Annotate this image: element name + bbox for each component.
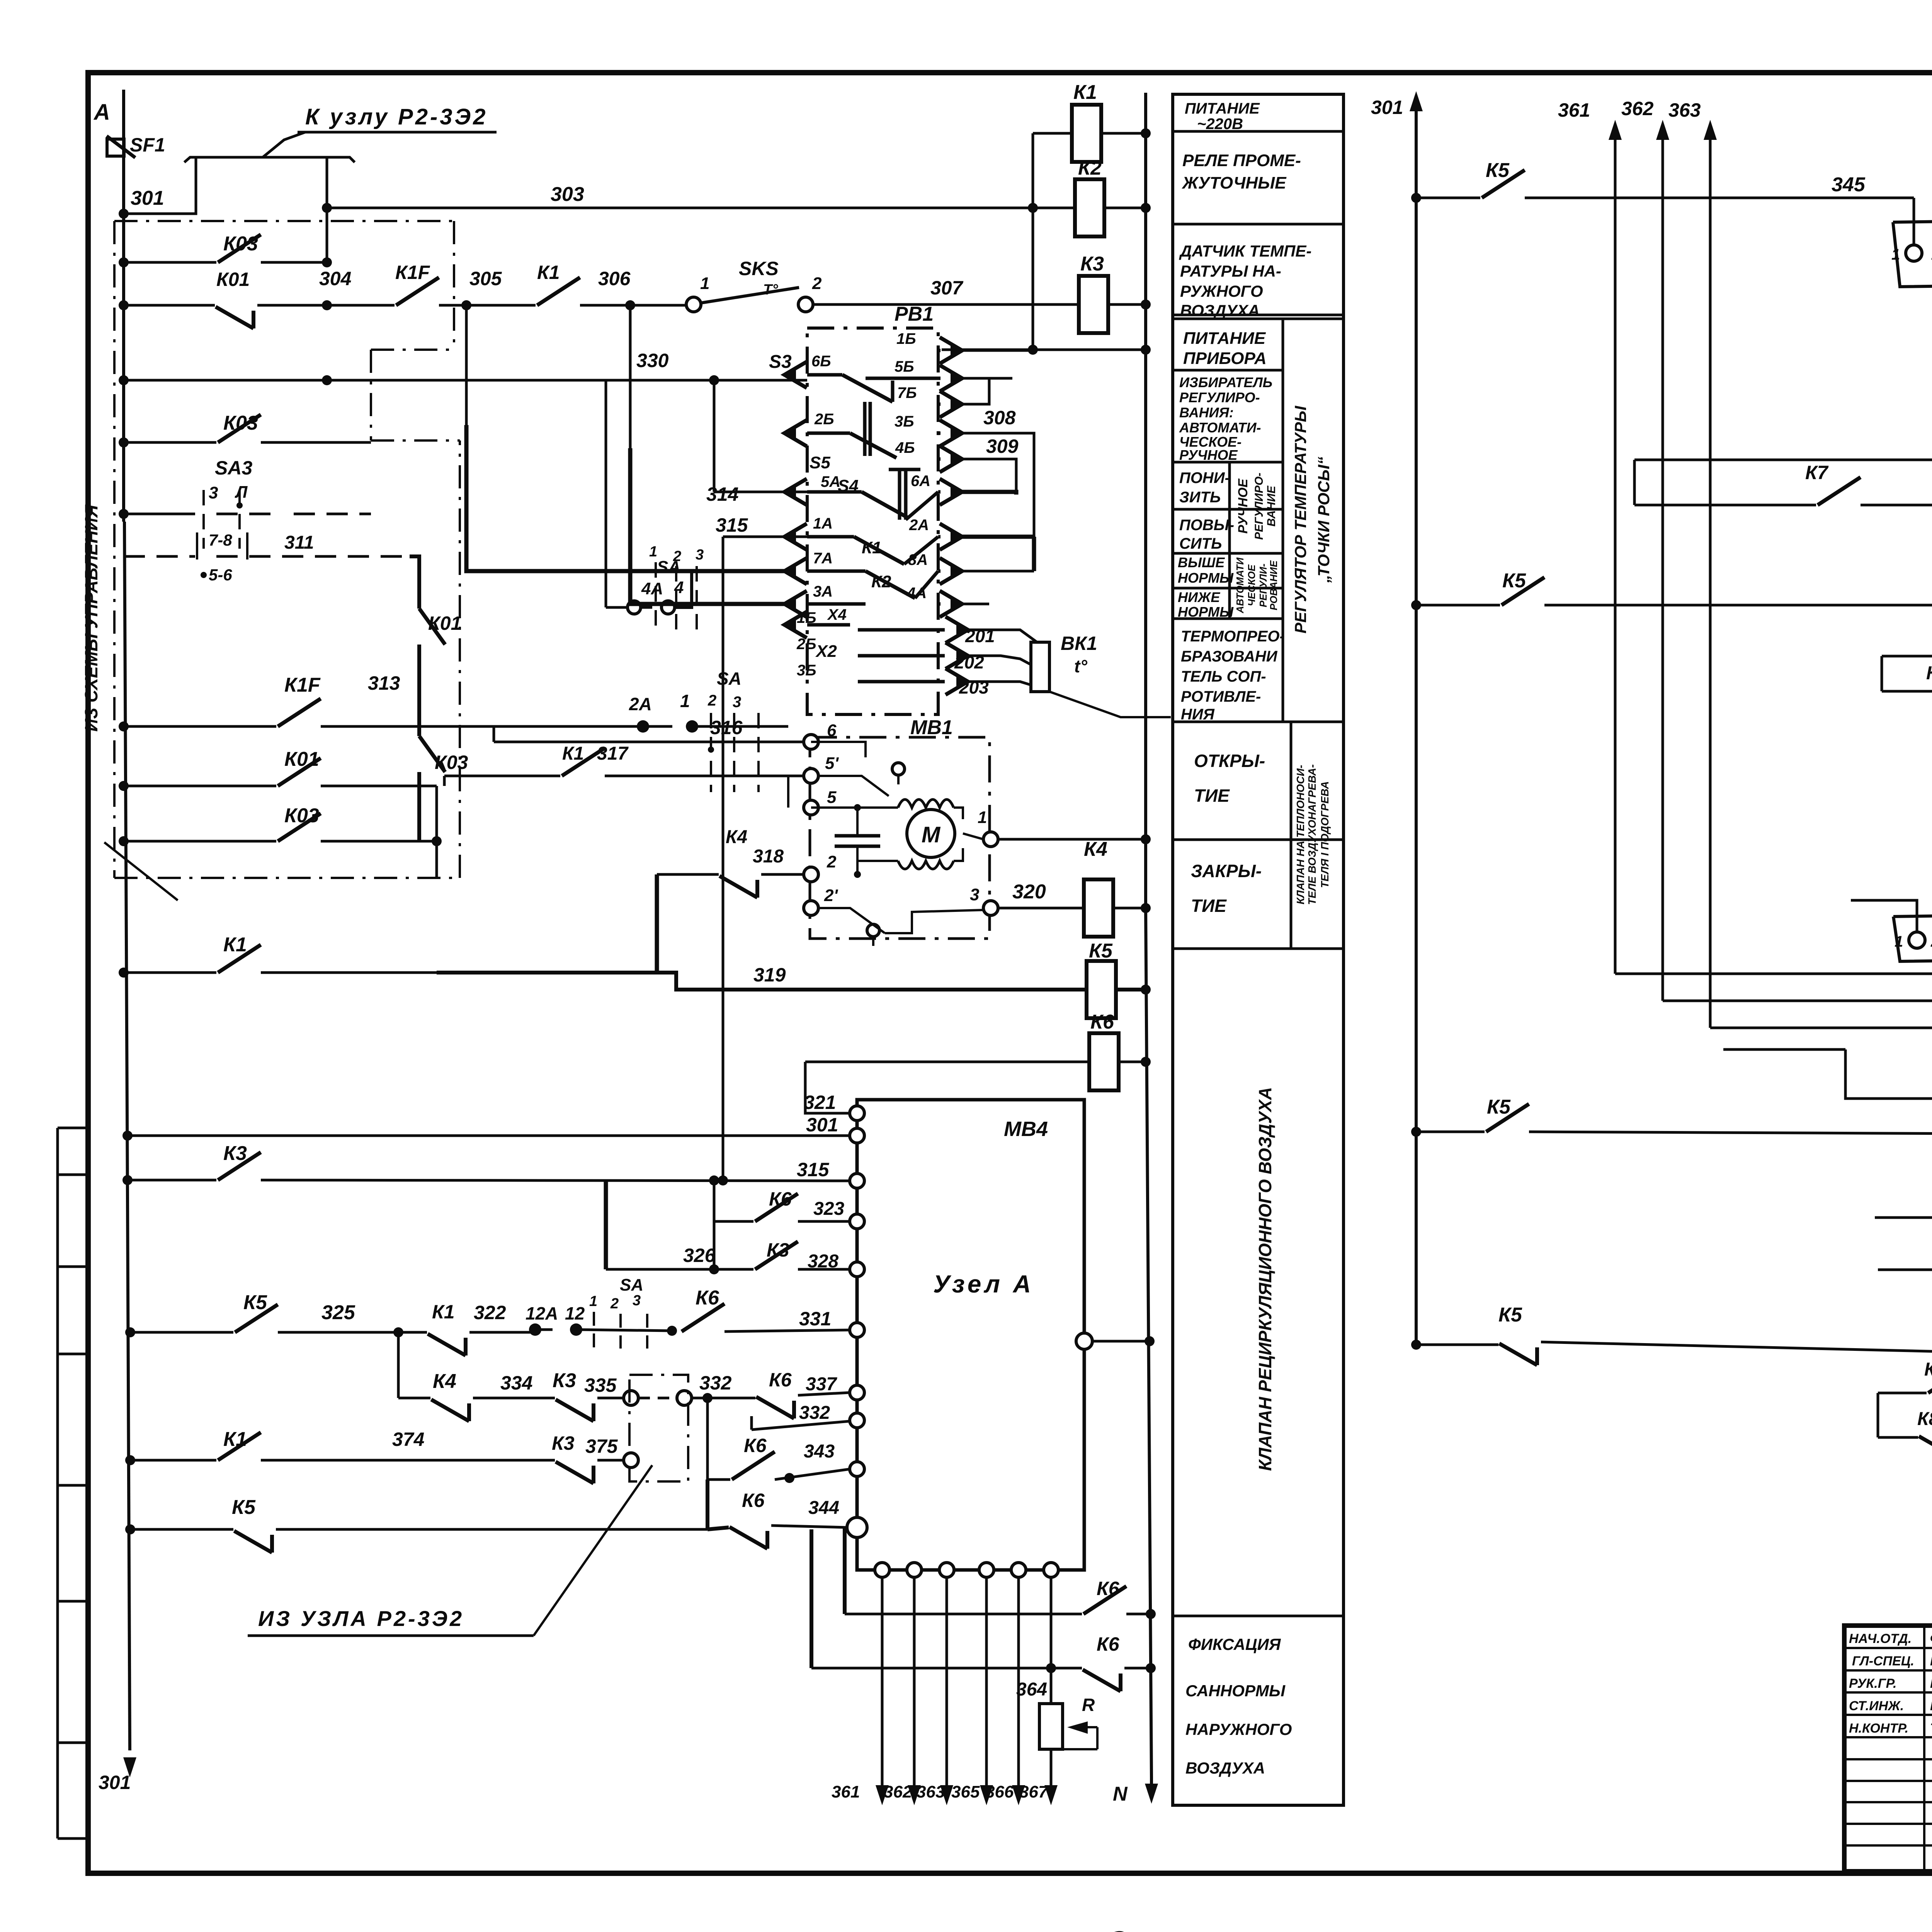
svg-text:306: 306 bbox=[598, 268, 631, 289]
wire 316 bbox=[494, 741, 811, 743]
MB4 bottom terminal x2553 bbox=[979, 1563, 994, 1577]
wire 330 rung bbox=[124, 379, 807, 382]
svg-text:311: 311 bbox=[284, 532, 314, 553]
vertical 325-334 link bbox=[397, 1332, 400, 1398]
PB1 right pin 5Б bbox=[940, 365, 962, 391]
svg-text:ТЕЛЕ ВОЗДУХОНАГРЕВА-: ТЕЛЕ ВОЗДУХОНАГРЕВА- bbox=[1306, 764, 1318, 905]
svg-text:305: 305 bbox=[469, 268, 502, 289]
svg-text:К1: К1 bbox=[537, 262, 560, 283]
MB4 bottom terminal x2720 bbox=[1044, 1563, 1058, 1577]
svg-text:335: 335 bbox=[584, 1374, 617, 1396]
PB1 right pin 4Б bbox=[940, 446, 962, 472]
svg-text:БРАЗОВАНИ: БРАЗОВАНИ bbox=[1181, 648, 1278, 665]
PB1 left pin 3А bbox=[784, 591, 807, 617]
svg-text:К8: К8 bbox=[1924, 1359, 1932, 1380]
svg-text:РЕГУЛЯТОР ТЕМПЕРАТУРЫ: РЕГУЛЯТОР ТЕМПЕРАТУРЫ bbox=[1291, 405, 1310, 633]
svg-text:РОТИВЛЕ-: РОТИВЛЕ- bbox=[1181, 688, 1261, 705]
wire 303 bbox=[327, 157, 1146, 208]
MB4 bottom terminal x2636 bbox=[1011, 1563, 1026, 1577]
svg-text:АВТОМАТИ-: АВТОМАТИ- bbox=[1179, 420, 1261, 435]
svg-text:К4: К4 bbox=[433, 1370, 456, 1393]
PB1 right pin 4А bbox=[940, 591, 962, 617]
PB1 X2 pin 2Б bbox=[946, 643, 968, 669]
svg-text:Х4: Х4 bbox=[827, 606, 847, 623]
svg-text:2: 2 bbox=[1930, 933, 1932, 950]
svg-text:РВ1: РВ1 bbox=[895, 303, 934, 325]
svg-text:ОТКРЫ-: ОТКРЫ- bbox=[1194, 751, 1265, 771]
MB4 left terminal y2939 bbox=[850, 1128, 864, 1143]
svg-text:303: 303 bbox=[551, 183, 584, 206]
wire 309 bbox=[958, 459, 1016, 495]
svg-text:ВАНИЯ:: ВАНИЯ: bbox=[1179, 405, 1234, 420]
svg-text:НИЖЕ: НИЖЕ bbox=[1178, 589, 1220, 605]
svg-text:Узел А: Узел А bbox=[933, 1270, 1034, 1298]
svg-text:1: 1 bbox=[700, 274, 709, 293]
svg-text:332: 332 bbox=[699, 1372, 732, 1394]
svg-text:325: 325 bbox=[321, 1301, 355, 1324]
svg-text:К1: К1 bbox=[562, 743, 584, 764]
svg-text:364: 364 bbox=[1016, 1679, 1047, 1700]
svg-text:2': 2' bbox=[824, 886, 838, 905]
svg-text:ИЗ УЗЛА Р2-3Э2: ИЗ УЗЛА Р2-3Э2 bbox=[258, 1606, 464, 1631]
svg-text:SKS: SKS bbox=[739, 258, 779, 279]
svg-text:НОРМЫ: НОРМЫ bbox=[1178, 570, 1234, 586]
contact K01 on vertical 313 bbox=[417, 564, 421, 609]
svg-text:3: 3 bbox=[209, 483, 218, 502]
MB4 left terminal y3604 bbox=[850, 1385, 864, 1400]
wire 348 row with K7 contact bbox=[1633, 460, 1636, 505]
svg-text:314: 314 bbox=[706, 483, 738, 505]
MB1 terminal 5 bbox=[804, 800, 818, 815]
svg-text:К01: К01 bbox=[284, 748, 319, 770]
svg-text:323: 323 bbox=[813, 1199, 844, 1219]
svg-text:ВОЗДУХА: ВОЗДУХА bbox=[1180, 301, 1260, 320]
svg-text:ВОЗДУХА: ВОЗДУХА bbox=[1185, 1759, 1265, 1777]
svg-text:К6: К6 bbox=[744, 1435, 767, 1456]
svg-text:ТИЕ: ТИЕ bbox=[1194, 786, 1230, 806]
svg-text:К5: К5 bbox=[1487, 1096, 1511, 1118]
relay coil K1 bbox=[1033, 132, 1146, 135]
PB1 right pin 3Б bbox=[940, 420, 962, 446]
wire 301 right bus with up arrow bbox=[1415, 111, 1418, 1345]
wire 320 bbox=[998, 907, 1146, 910]
svg-text:374: 374 bbox=[392, 1429, 424, 1450]
svg-text:СИТЬ: СИТЬ bbox=[1179, 535, 1222, 552]
svg-text:S3: S3 bbox=[769, 352, 792, 372]
svg-text:343: 343 bbox=[804, 1441, 835, 1462]
svg-text:344: 344 bbox=[808, 1498, 839, 1518]
svg-text:1: 1 bbox=[1891, 246, 1900, 263]
rung K8 371 bbox=[1878, 1392, 1927, 1395]
selector SA section dots 2A 1 bbox=[637, 720, 649, 733]
svg-text:ТЕЛЬ СОП-: ТЕЛЬ СОП- bbox=[1181, 668, 1266, 685]
svg-text:ИЗ СХЕМЫ УПРАВЛЕНИЯ: ИЗ СХЕМЫ УПРАВЛЕНИЯ bbox=[81, 504, 101, 732]
svg-text:МВ1: МВ1 bbox=[910, 716, 953, 739]
svg-text:1: 1 bbox=[1895, 933, 1903, 950]
svg-text:К1: К1 bbox=[432, 1301, 455, 1323]
svg-text:3: 3 bbox=[970, 885, 979, 904]
MB4 bottom terminal x2450 bbox=[939, 1563, 954, 1577]
svg-text:РЕГУЛИ-: РЕГУЛИ- bbox=[1257, 563, 1269, 607]
svg-text:НИКИФОРОВА: НИКИФОРОВА bbox=[1930, 1699, 1932, 1713]
svg-text:301: 301 bbox=[131, 187, 164, 209]
svg-text:ЗИТЬ: ЗИТЬ bbox=[1179, 489, 1221, 506]
relay coil K4 bbox=[1084, 879, 1113, 937]
svg-text:К01: К01 bbox=[428, 612, 461, 634]
svg-text:2: 2 bbox=[673, 548, 681, 565]
rung K03 (1) bbox=[124, 261, 216, 264]
svg-text:К5: К5 bbox=[1089, 940, 1113, 962]
svg-text:К6: К6 bbox=[742, 1490, 765, 1511]
MB1 terminal 6 bbox=[804, 735, 818, 749]
svg-text:РЕЛЕ ПРОМЕ-: РЕЛЕ ПРОМЕ- bbox=[1182, 151, 1301, 170]
svg-text:366: 366 bbox=[985, 1782, 1014, 1801]
svg-text:К6: К6 bbox=[1097, 1578, 1120, 1599]
wire K1 branch vertical bbox=[1032, 133, 1034, 350]
dash-dot boundary from control circuit bbox=[113, 221, 116, 878]
svg-text:РУЧНОЕ: РУЧНОЕ bbox=[1179, 447, 1238, 463]
svg-text:365: 365 bbox=[951, 1782, 980, 1801]
svg-text:К узлу Р2-3Э2: К узлу Р2-3Э2 bbox=[305, 104, 488, 129]
PB1 left pin Х4 bbox=[784, 612, 807, 638]
wire motor 1 to N bbox=[998, 838, 1146, 841]
svg-text:326: 326 bbox=[683, 1245, 716, 1266]
MB1 right terminal 3 bbox=[983, 901, 998, 915]
wire 314 bbox=[605, 380, 607, 607]
svg-text:К5: К5 bbox=[243, 1291, 267, 1314]
rung K4 334 K3 335 bbox=[398, 1397, 430, 1400]
wire 311 bbox=[410, 556, 419, 564]
svg-text:334: 334 bbox=[500, 1372, 532, 1394]
svg-text:307: 307 bbox=[930, 277, 964, 299]
svg-text:6Б: 6Б bbox=[811, 353, 831, 370]
svg-text:~220В: ~220В bbox=[1197, 116, 1243, 133]
svg-text:К5: К5 bbox=[1502, 570, 1526, 592]
svg-text:3А: 3А bbox=[813, 583, 833, 600]
svg-text:РОВАНИЕ: РОВАНИЕ bbox=[1268, 560, 1279, 611]
svg-text:РУЖНОГО: РУЖНОГО bbox=[1180, 282, 1263, 300]
resistance thermometer BK1 bbox=[965, 630, 1040, 645]
svg-text:361: 361 bbox=[832, 1782, 860, 1801]
svg-text:5': 5' bbox=[825, 754, 839, 773]
wire 353 bbox=[1845, 1049, 1932, 1099]
wire 321 bbox=[805, 1062, 850, 1113]
motor winding bottom bbox=[857, 860, 898, 862]
rung K3 315 bbox=[128, 1179, 216, 1182]
PB1 left pin 2Б bbox=[784, 420, 807, 446]
svg-text:КЛАПАН НА ТЕПЛОНОСИ-: КЛАПАН НА ТЕПЛОНОСИ- bbox=[1294, 765, 1306, 904]
svg-text:К3: К3 bbox=[767, 1239, 789, 1261]
svg-text:SА3: SА3 bbox=[215, 457, 252, 479]
svg-text:ВК1: ВК1 bbox=[1061, 633, 1097, 654]
svg-text:ПОНИ-: ПОНИ- bbox=[1179, 469, 1230, 486]
svg-text:К1: К1 bbox=[1073, 81, 1097, 104]
svg-text:ПРИБОРА: ПРИБОРА bbox=[1183, 349, 1267, 368]
PB1 left pin 5А bbox=[784, 479, 807, 505]
MB1 terminal 2 bbox=[804, 867, 818, 882]
svg-text:328: 328 bbox=[808, 1251, 838, 1272]
N bus left half bbox=[1144, 93, 1147, 908]
PB1 right pin 2А bbox=[940, 524, 962, 550]
wire 8A stub bbox=[958, 570, 1034, 573]
svg-text:ВЫШЕ: ВЫШЕ bbox=[1178, 554, 1225, 570]
svg-text:К1F: К1F bbox=[284, 674, 321, 696]
svg-text:2Б: 2Б bbox=[796, 636, 816, 653]
svg-text:К1F: К1F bbox=[395, 262, 430, 283]
svg-text:309: 309 bbox=[986, 435, 1019, 457]
MB4 bottom terminal x2366 bbox=[907, 1563, 922, 1577]
svg-text:308: 308 bbox=[983, 407, 1016, 429]
svg-text:НАРУЖНОГО: НАРУЖНОГО bbox=[1185, 1720, 1292, 1738]
MB4 left terminal y3802 bbox=[850, 1462, 864, 1476]
svg-text:315: 315 bbox=[797, 1159, 830, 1180]
MB4 left terminal y3056 bbox=[850, 1173, 864, 1188]
svg-text:5-6: 5-6 bbox=[209, 566, 232, 584]
relay coil K5 bbox=[1087, 961, 1116, 1018]
MB1 capacitor bbox=[856, 808, 859, 835]
title block frame bbox=[1844, 1626, 1932, 1871]
horizontal feeders to KB2 bbox=[1615, 973, 1932, 975]
svg-text:К6: К6 bbox=[1090, 1011, 1114, 1033]
MB4 left terminal y3285 bbox=[850, 1262, 864, 1277]
svg-text:ЗАКРЫ-: ЗАКРЫ- bbox=[1191, 861, 1262, 881]
MB1 right terminal 1 bbox=[983, 832, 998, 847]
svg-text:319: 319 bbox=[753, 964, 786, 986]
MB4 left terminal y3442 bbox=[850, 1323, 864, 1337]
svg-text:337: 337 bbox=[806, 1374, 837, 1395]
controller block MB4 Uzel A bbox=[857, 1100, 1084, 1570]
svg-text:К6: К6 bbox=[696, 1287, 719, 1309]
svg-text:К3: К3 bbox=[1080, 253, 1104, 275]
svg-text:МВ4: МВ4 bbox=[1004, 1117, 1048, 1141]
svg-text:5: 5 bbox=[827, 788, 837, 807]
svg-text:3: 3 bbox=[696, 547, 704, 563]
rung K6 343 bbox=[706, 1398, 709, 1480]
PB1 X2 pin 1Б bbox=[946, 617, 968, 643]
wire 5B stub bbox=[958, 377, 1012, 380]
relay coil K6 bbox=[805, 1061, 1146, 1063]
svg-text:Н.КОНТР.: Н.КОНТР. bbox=[1849, 1721, 1908, 1736]
svg-text:5Б: 5Б bbox=[895, 358, 914, 375]
circuit breaker SF1 bbox=[107, 136, 135, 158]
svg-text:НОРМЫ: НОРМЫ bbox=[1178, 604, 1234, 620]
svg-text:К7: К7 bbox=[1805, 462, 1829, 483]
relay coil K3 bbox=[1079, 276, 1108, 333]
svg-text:SF1: SF1 bbox=[130, 134, 165, 156]
svg-text:К5: К5 bbox=[1498, 1304, 1522, 1326]
node 313 bbox=[417, 645, 421, 736]
svg-text:ЖУТОЧНЫЕ: ЖУТОЧНЫЕ bbox=[1182, 173, 1287, 192]
svg-text:АВТОМАТИ: АВТОМАТИ bbox=[1234, 557, 1246, 614]
rung K5 345 bbox=[1411, 193, 1421, 203]
svg-text:РЕГУЛИРО-: РЕГУЛИРО- bbox=[1253, 473, 1265, 540]
svg-text:332: 332 bbox=[799, 1403, 830, 1423]
svg-text:ФИКСАЦИЯ: ФИКСАЦИЯ bbox=[1188, 1635, 1281, 1653]
svg-text:К03: К03 bbox=[284, 804, 319, 827]
wires to arrows 361..367 bbox=[881, 1577, 884, 1785]
wire 301 to K uzlu bracket bbox=[124, 157, 196, 214]
PB1 right pin 1Б bbox=[940, 337, 962, 364]
wire 332 junction bbox=[692, 1397, 755, 1400]
svg-text:3Б: 3Б bbox=[797, 662, 816, 679]
svg-text:A: A bbox=[93, 100, 110, 125]
svg-text:202: 202 bbox=[954, 652, 984, 672]
svg-text:Л: Л bbox=[235, 483, 248, 502]
rung K1 374 K3 375 bbox=[130, 1459, 216, 1462]
svg-text:2А: 2А bbox=[909, 517, 929, 534]
svg-text:316: 316 bbox=[710, 717, 743, 738]
svg-text:РУЧНОЕ: РУЧНОЕ bbox=[1236, 478, 1250, 534]
MB4 bottom terminal x2283 bbox=[875, 1563, 889, 1577]
svg-text:БРОНШТЕЙН: БРОНШТЕЙН bbox=[1930, 1676, 1932, 1691]
svg-text:К8: К8 bbox=[1917, 1409, 1932, 1429]
svg-text:К7: К7 bbox=[1926, 663, 1932, 684]
PB1 right pin 8А bbox=[940, 558, 962, 584]
svg-text:2: 2 bbox=[812, 274, 822, 293]
rung K5 356 bbox=[1411, 1127, 1421, 1137]
svg-text:375: 375 bbox=[585, 1435, 618, 1457]
svg-text:К3: К3 bbox=[552, 1432, 575, 1454]
wire 355 bbox=[1875, 1001, 1932, 1218]
svg-text:322: 322 bbox=[474, 1302, 506, 1323]
svg-text:ТЕЛЯ I ПОДОГРЕВА: ТЕЛЯ I ПОДОГРЕВА bbox=[1319, 781, 1331, 888]
svg-text:ПИТАНИЕ: ПИТАНИЕ bbox=[1185, 100, 1260, 117]
svg-text:К6: К6 bbox=[769, 1369, 792, 1391]
svg-text:ПИТАНИЕ: ПИТАНИЕ bbox=[1183, 329, 1266, 348]
rung K7 351 bbox=[1882, 690, 1932, 693]
svg-text:САННОРМЫ: САННОРМЫ bbox=[1185, 1682, 1286, 1700]
rung K5 354 bbox=[1411, 1340, 1421, 1350]
MB4 left terminal y3161 bbox=[850, 1214, 864, 1229]
svg-text:Х2: Х2 bbox=[815, 642, 837, 661]
svg-text:S5: S5 bbox=[810, 453, 830, 472]
svg-text:367: 367 bbox=[1019, 1782, 1049, 1801]
svg-text:7Б: 7Б bbox=[897, 384, 917, 401]
svg-text:4Б: 4Б bbox=[895, 439, 915, 456]
PB1 X2 pin 3Б bbox=[946, 668, 968, 695]
svg-text:ЧЕСКОЕ: ЧЕСКОЕ bbox=[1246, 564, 1257, 606]
svg-text:t°: t° bbox=[1074, 656, 1087, 676]
svg-text:363: 363 bbox=[917, 1782, 945, 1801]
KB1 pin 1 bbox=[1906, 245, 1922, 261]
motor winding top bbox=[842, 806, 898, 809]
svg-text:2: 2 bbox=[707, 692, 716, 709]
svg-text:362: 362 bbox=[884, 1782, 912, 1801]
svg-text:НИЯ: НИЯ bbox=[1181, 706, 1215, 723]
MB1 bottom limit switch bbox=[867, 924, 879, 937]
rung K1 317 bbox=[444, 775, 560, 777]
svg-text:6: 6 bbox=[827, 721, 837, 740]
svg-text:ФИНГЕР: ФИНГЕР bbox=[1930, 1631, 1932, 1646]
KB1 terminal strip bbox=[1893, 218, 1932, 287]
svg-text:2А: 2А bbox=[629, 694, 652, 714]
svg-text:ИЗБИРАТЕЛЬ: ИЗБИРАТЕЛЬ bbox=[1179, 374, 1272, 390]
MB1 internal limit switch top bbox=[811, 742, 866, 757]
rung K01 (2) bbox=[124, 785, 276, 787]
thermal switch SKS bbox=[686, 297, 701, 312]
svg-text:Т°: Т° bbox=[763, 282, 778, 298]
svg-text:К1: К1 bbox=[223, 934, 247, 956]
PB1 left pin 7А bbox=[784, 558, 807, 584]
rung 331 (K5 K1 SA K6) bbox=[130, 1331, 233, 1334]
svg-text:ГЛ-СПЕЦ.: ГЛ-СПЕЦ. bbox=[1852, 1654, 1914, 1668]
svg-text:К03: К03 bbox=[223, 233, 258, 255]
svg-text:7-8: 7-8 bbox=[209, 531, 232, 549]
svg-text:К03: К03 bbox=[435, 752, 468, 773]
rung K3 328 / 326 bbox=[714, 1268, 753, 1271]
svg-text:SА: SА bbox=[620, 1276, 643, 1294]
function column frame bbox=[1173, 94, 1344, 1805]
svg-text:321: 321 bbox=[804, 1092, 836, 1113]
rung K03 (3) bbox=[124, 840, 276, 843]
svg-text:R: R bbox=[1082, 1695, 1095, 1715]
svg-text:3: 3 bbox=[633, 1293, 641, 1309]
svg-text:ТЕРМОПРЕО-: ТЕРМОПРЕО- bbox=[1181, 628, 1285, 645]
svg-text:6А: 6А bbox=[911, 473, 930, 490]
svg-text:330: 330 bbox=[636, 350, 669, 371]
svg-text:РАТУРЫ НА-: РАТУРЫ НА- bbox=[1180, 262, 1281, 280]
svg-text:КЛАПАН РЕЦИРКУЛЯЦИОННОГО ВОЗ: КЛАПАН РЕЦИРКУЛЯЦИОННОГО ВОЗДУХА bbox=[1255, 1087, 1275, 1471]
svg-text:3: 3 bbox=[733, 694, 741, 711]
rung K6 344 bbox=[707, 1527, 729, 1529]
svg-text:3Б: 3Б bbox=[895, 413, 914, 430]
rung K6 337 bbox=[756, 1397, 794, 1418]
svg-text:НАЧ.ОТД.: НАЧ.ОТД. bbox=[1849, 1631, 1912, 1646]
svg-text:12А: 12А bbox=[526, 1303, 558, 1323]
svg-text:313: 313 bbox=[368, 672, 400, 694]
svg-text:317: 317 bbox=[597, 743, 629, 764]
rung K03 (2) bbox=[124, 441, 216, 444]
rung 332b bbox=[755, 1395, 850, 1430]
svg-text:К01: К01 bbox=[216, 269, 250, 290]
svg-text:ПОВЫ-: ПОВЫ- bbox=[1179, 517, 1234, 534]
svg-text:331: 331 bbox=[799, 1308, 831, 1330]
rung K6 323 bbox=[714, 1220, 753, 1223]
svg-text:„ТОЧКИ РОСЫ“: „ТОЧКИ РОСЫ“ bbox=[1315, 457, 1333, 583]
MB4 right terminal to N bbox=[1076, 1333, 1092, 1349]
dash-dot box around 335/375 contacts bbox=[629, 1375, 688, 1481]
wire 347 row bbox=[1634, 459, 1932, 461]
MB4 left terminal 344 bbox=[847, 1517, 867, 1537]
svg-text:ДАТЧИК ТЕМПЕ-: ДАТЧИК ТЕМПЕ- bbox=[1179, 242, 1311, 260]
svg-text:362: 362 bbox=[1621, 98, 1654, 119]
wire 7B stub bbox=[958, 378, 989, 404]
svg-text:1: 1 bbox=[978, 808, 987, 827]
left margin filing boxes bbox=[56, 1128, 59, 1838]
dashed rung 5-6 bbox=[124, 555, 195, 558]
wire 1B to N bbox=[958, 349, 1033, 352]
svg-text:SА: SА bbox=[717, 668, 742, 689]
svg-text:1: 1 bbox=[649, 544, 657, 560]
svg-text:СТ.ИНЖ.: СТ.ИНЖ. bbox=[1849, 1699, 1904, 1713]
svg-text:1Б: 1Б bbox=[896, 330, 916, 347]
rung K5 (bottom) bbox=[130, 1528, 233, 1531]
svg-text:К03: К03 bbox=[223, 412, 258, 434]
svg-text:203: 203 bbox=[959, 677, 989, 697]
KB2 pin 1 bbox=[1909, 932, 1925, 948]
svg-text:1: 1 bbox=[589, 1293, 597, 1310]
motor M bbox=[907, 810, 955, 857]
PB1 right pin 7Б bbox=[940, 391, 962, 417]
wire 1B feed (pitanie pribora) bbox=[942, 349, 1146, 351]
MB4 left terminal y2881 bbox=[850, 1106, 864, 1121]
KB2 pin1 stub up bbox=[1851, 900, 1917, 932]
svg-text:РЕГУЛИРО-: РЕГУЛИРО- bbox=[1179, 389, 1260, 405]
svg-text:2: 2 bbox=[827, 852, 837, 871]
svg-text:1А: 1А bbox=[813, 515, 833, 532]
svg-text:345: 345 bbox=[1832, 173, 1866, 196]
svg-text:ТИЕ: ТИЕ bbox=[1191, 896, 1227, 916]
